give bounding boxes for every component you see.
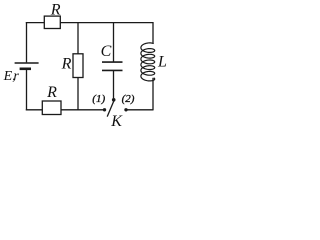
wire capacitor branch upper: [113, 23, 115, 63]
wire right vertical lower: [152, 78, 154, 111]
capacitor C top plate: [102, 61, 123, 63]
wire bottom middle segment to contact (1): [61, 109, 104, 111]
wire bottom-left segment: [26, 109, 43, 111]
svg-text:R: R: [50, 1, 61, 18]
resistor R2 (middle vertical box): [73, 54, 83, 78]
switch contact (1) dot: [103, 108, 106, 111]
capacitor C bottom plate: [102, 69, 123, 71]
svg-text:L: L: [157, 54, 167, 71]
wire top-left segment: [26, 22, 45, 24]
wire middle branch lower: [77, 78, 79, 110]
wire left vertical lower: [26, 69, 28, 111]
wire right vertical upper: [152, 22, 154, 44]
wire middle branch upper: [77, 23, 79, 54]
wire left vertical upper (to battery): [26, 22, 28, 62]
svg-text:R: R: [46, 84, 57, 101]
svg-text:(1): (1): [92, 93, 105, 105]
switch K pole junction dot: [112, 98, 116, 102]
svg-text:K: K: [110, 113, 123, 129]
svg-text:C: C: [101, 43, 112, 60]
inductor L coil: [141, 43, 155, 81]
resistor R1 (top box): [44, 16, 60, 28]
switch contact (2) dot: [124, 108, 127, 111]
svg-text:(2): (2): [122, 93, 135, 105]
battery E,r short thick plate: [20, 68, 31, 71]
svg-text:r: r: [13, 69, 19, 84]
switch K blade: [107, 101, 114, 117]
wire bottom-right segment from contact (2): [126, 109, 153, 111]
wire top-right segment: [60, 22, 153, 24]
svg-text:R: R: [61, 56, 72, 73]
battery E,r long plate: [15, 62, 39, 64]
wire capacitor branch lower (to switch pole): [113, 70, 115, 98]
resistor R3 (bottom box): [42, 101, 61, 115]
